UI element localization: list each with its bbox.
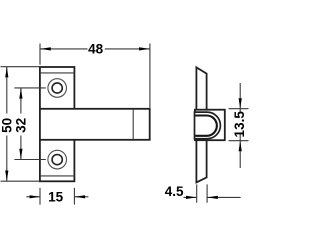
svg-text:48: 48 — [88, 42, 104, 57]
svg-text:50: 50 — [0, 118, 14, 133]
svg-text:13.5: 13.5 — [232, 111, 247, 138]
svg-text:32: 32 — [14, 118, 29, 133]
svg-text:4.5: 4.5 — [165, 184, 184, 199]
svg-text:15: 15 — [48, 189, 64, 204]
